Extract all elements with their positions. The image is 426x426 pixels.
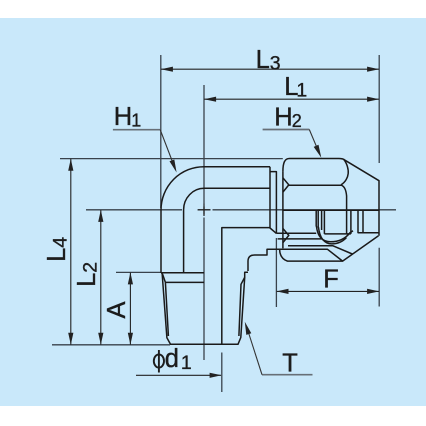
svg-text:A: A bbox=[103, 301, 131, 318]
svg-text:d1: d1 bbox=[165, 345, 192, 374]
svg-text:L1: L1 bbox=[284, 73, 307, 102]
svg-text:L3: L3 bbox=[256, 46, 281, 75]
svg-text:L2: L2 bbox=[73, 262, 102, 287]
svg-text:L4: L4 bbox=[43, 237, 72, 262]
svg-text:H2: H2 bbox=[274, 104, 301, 132]
svg-text:F: F bbox=[323, 266, 339, 294]
svg-text:H1: H1 bbox=[114, 103, 141, 131]
svg-text:T: T bbox=[282, 349, 298, 377]
